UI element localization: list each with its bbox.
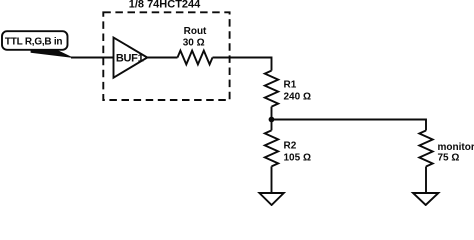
resistor R2 — [265, 130, 311, 166]
svg-text:TTL R,G,B in: TTL R,G,B in — [5, 37, 63, 48]
op-amp buffer BUF1 — [114, 38, 148, 78]
resistor Rout — [178, 26, 213, 64]
wire: buffer output to Rout — [147, 57, 177, 59]
wire: flag tip to buffer input — [71, 57, 114, 59]
node junction — [269, 117, 275, 123]
svg-text:105 Ω: 105 Ω — [284, 153, 311, 164]
wire: R1 to junction — [271, 107, 273, 120]
svg-text:1/8 74HCT244: 1/8 74HCT244 — [129, 0, 201, 10]
wire: monitor to ground — [425, 167, 427, 194]
svg-text:R2: R2 — [284, 141, 297, 152]
wire: R2 to ground — [271, 166, 273, 193]
IC 1/8 74HCT244 dashed boundary — [103, 0, 229, 100]
wire: junction down to R2 — [271, 120, 273, 131]
resistor R1 — [265, 71, 311, 107]
svg-text:240 Ω: 240 Ω — [284, 92, 311, 103]
svg-text:Rout: Rout — [184, 26, 207, 37]
resistor monitor — [419, 131, 474, 167]
wire: junction to monitor branch — [272, 120, 427, 131]
ground (monitor) — [413, 193, 438, 205]
svg-text:R1: R1 — [284, 80, 297, 91]
svg-text:monitor: monitor — [438, 142, 474, 153]
wire: Rout to top corner and down to R1 — [213, 58, 272, 71]
svg-text:BUF1: BUF1 — [116, 53, 144, 65]
net label TTL R,G,B in — [2, 31, 72, 57]
svg-text:75 Ω: 75 Ω — [438, 152, 460, 163]
svg-text:30 Ω: 30 Ω — [183, 37, 205, 48]
ground (R2) — [259, 193, 283, 205]
